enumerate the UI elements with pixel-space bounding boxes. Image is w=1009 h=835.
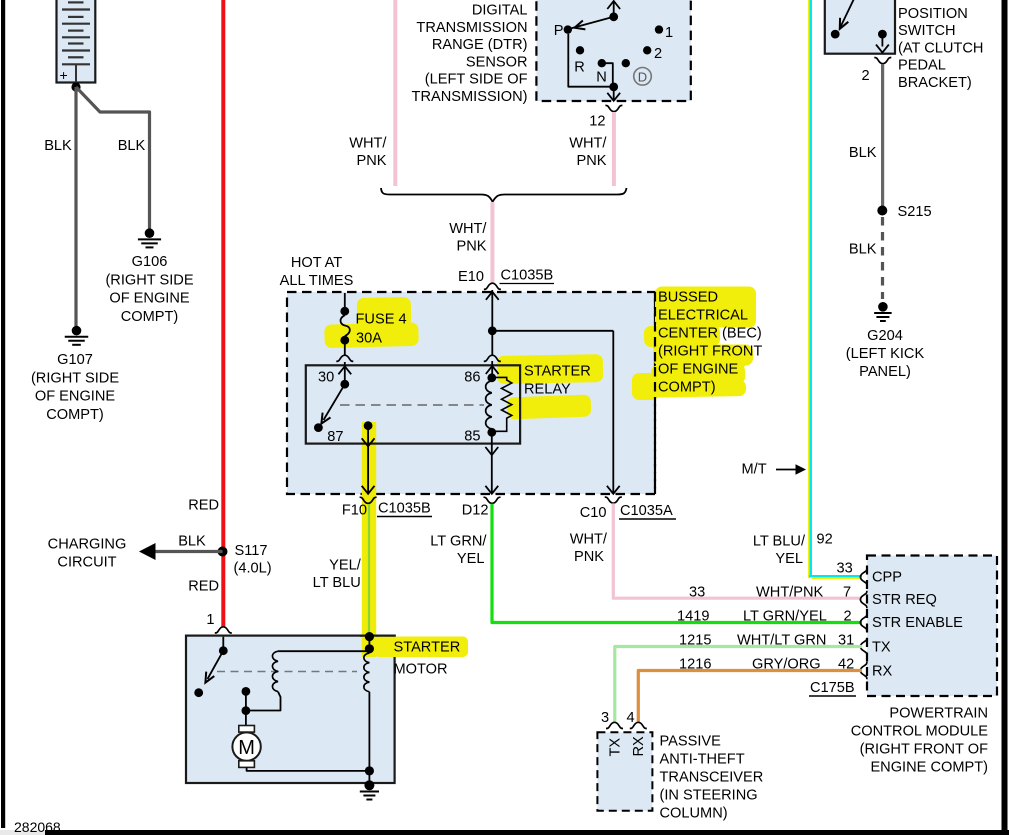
svg-text:ALL TIMES: ALL TIMES <box>280 273 354 289</box>
connector E10 C1035B <box>484 283 501 289</box>
svg-text:RED: RED <box>188 498 219 514</box>
svg-text:ENGINE COMPT): ENGINE COMPT) <box>870 760 988 776</box>
DTR selector node <box>609 12 618 21</box>
svg-text:CPP: CPP <box>872 570 902 586</box>
highlight mark blob left of COMPT) <box>632 373 659 400</box>
svg-text:C10: C10 <box>580 505 607 521</box>
svg-text:TX: TX <box>608 738 624 757</box>
svg-text:N: N <box>596 70 607 86</box>
starter hold-in coil <box>364 653 370 692</box>
svg-text:COLUMN): COLUMN) <box>660 806 728 822</box>
svg-text:TRANSCEIVER: TRANSCEIVER <box>660 770 764 786</box>
svg-text:(RIGHT SIDE: (RIGHT SIDE <box>31 370 119 386</box>
svg-text:DIGITAL: DIGITAL <box>472 3 528 19</box>
DTR contact 2 <box>643 46 651 54</box>
svg-text:HOT AT: HOT AT <box>291 255 342 271</box>
battery output junction node <box>71 82 80 91</box>
starter solenoid top wire <box>278 650 369 652</box>
DTR contact 1 <box>655 25 663 33</box>
svg-text:3: 3 <box>601 710 609 726</box>
svg-text:SWITCH: SWITCH <box>898 23 956 39</box>
svg-text:TRANSMISSION): TRANSMISSION) <box>412 89 528 105</box>
starter switch node <box>219 646 228 655</box>
svg-text:LT BLU: LT BLU <box>313 575 361 591</box>
clutch position switch arm with arrow <box>840 0 857 29</box>
wire BLK clutch switch to S215 <box>881 64 884 211</box>
svg-text:1: 1 <box>665 25 673 41</box>
svg-text:C1035A: C1035A <box>620 503 673 519</box>
relay switch arm <box>324 384 345 420</box>
highlight mark over COMPT) <box>635 380 746 398</box>
PCM pin CPP <box>860 568 867 585</box>
svg-text:YEL: YEL <box>457 551 485 567</box>
svg-text:COMPT): COMPT) <box>658 380 716 396</box>
wire YEL/LT BLU F10 to starter motor <box>368 504 370 636</box>
wire WHT/PNK left vertical <box>393 0 397 186</box>
relay pin 85 exit wire with arrows <box>491 434 493 493</box>
svg-text:COMPT): COMPT) <box>46 407 104 423</box>
svg-text:S117: S117 <box>235 543 268 559</box>
svg-text:BRACKET): BRACKET) <box>898 75 972 91</box>
svg-text:COMPT): COMPT) <box>121 309 179 325</box>
relay coil node 85 <box>487 428 496 437</box>
starter box top edge over highlight <box>360 634 396 636</box>
wire WHT/PNK C10 to PCM STR REQ <box>613 503 862 598</box>
svg-text:TRANSMISSION: TRANSMISSION <box>416 20 527 36</box>
starter relay box <box>306 365 520 443</box>
svg-text:STARTER: STARTER <box>394 640 461 656</box>
svg-text:86: 86 <box>464 370 480 386</box>
starter motor M <box>232 732 260 760</box>
svg-text:WHT/: WHT/ <box>570 532 608 548</box>
svg-text:MOTOR: MOTOR <box>394 662 448 678</box>
highlight mark over STARTER label of starter motor <box>374 637 468 658</box>
relay coil parallel resistor <box>492 377 512 431</box>
PCM pin TX <box>860 638 867 655</box>
svg-text:ELECTRICAL: ELECTRICAL <box>658 308 748 324</box>
highlight mark under RELAY label <box>507 395 592 420</box>
wire BLK dashed S215 to G204 <box>881 217 884 299</box>
wire LT BLU/YEL vertical to PCM CPP <box>809 0 862 578</box>
wire junction to relay pin 86 <box>491 331 493 355</box>
relay pin 30 entry arrow <box>344 362 346 384</box>
starter feed node at box edge <box>365 632 374 641</box>
svg-text:OF ENGINE: OF ENGINE <box>658 362 739 378</box>
starter motor brush upper <box>245 711 247 726</box>
wire LT GRN/YEL D12 to PCM STR ENABLE <box>492 504 862 623</box>
svg-text:(4.0L): (4.0L) <box>234 561 272 577</box>
svg-text:R: R <box>574 60 585 76</box>
connector starter pin 1 bump <box>215 627 232 633</box>
relay coil node 86 <box>487 373 496 382</box>
svg-text:(LEFT KICK: (LEFT KICK <box>846 346 925 362</box>
wire RED battery feed vertical <box>221 0 225 627</box>
wire GRY/ORG PCM RX to PATS pin 4 <box>638 671 862 722</box>
highlight mark over OF ENGINE <box>651 364 745 386</box>
page frame right border line <box>1002 0 1008 835</box>
svg-text:85: 85 <box>464 429 480 445</box>
DTR sensor box <box>536 0 690 101</box>
ground G107 <box>65 326 89 345</box>
battery B+ <box>57 0 96 87</box>
fuse F4 feed wire <box>344 293 346 308</box>
connector C10 C1035A <box>605 497 622 503</box>
highlight mark over (RIGHT FRONT <box>653 345 753 366</box>
svg-text:C1035B: C1035B <box>378 501 431 517</box>
svg-text:G107: G107 <box>57 352 93 368</box>
svg-text:RANGE (DTR): RANGE (DTR) <box>432 37 528 53</box>
svg-text:(RIGHT FRONT OF: (RIGHT FRONT OF <box>860 742 988 758</box>
svg-text:PNK: PNK <box>456 239 486 255</box>
highlight mark over STARTER RELAY label <box>497 354 603 384</box>
BEC wire down to C10 with arrow <box>612 331 614 493</box>
svg-text:YEL/: YEL/ <box>329 558 362 574</box>
bussed electrical center (BEC) box <box>287 292 655 494</box>
svg-text:LT GRN/: LT GRN/ <box>430 534 487 550</box>
svg-text:LT BLU/: LT BLU/ <box>753 534 806 550</box>
svg-text:P: P <box>554 23 564 39</box>
svg-text:STR REQ: STR REQ <box>872 592 937 608</box>
starter ground <box>360 780 379 799</box>
svg-text:TX: TX <box>872 640 891 656</box>
svg-text:(IN STEERING: (IN STEERING <box>660 788 758 804</box>
wire BLK battery to G106 <box>76 87 150 229</box>
highlight mark over CENTER <box>644 325 720 347</box>
DTR contact R <box>576 46 584 54</box>
svg-text:WHT/PNK: WHT/PNK <box>756 585 824 601</box>
svg-text:ANTI-THEFT: ANTI-THEFT <box>660 752 745 768</box>
svg-text:CONTROL MODULE: CONTROL MODULE <box>851 724 989 740</box>
svg-text:M: M <box>238 737 255 759</box>
starter switch contact <box>194 688 203 697</box>
svg-text:30: 30 <box>318 370 334 386</box>
starter feed inner node <box>365 644 374 653</box>
highlight mark connector right <box>704 355 747 368</box>
relay actuation dashed link <box>340 404 484 406</box>
clutch switch output with down arrow <box>881 34 883 46</box>
svg-text:RX: RX <box>872 664 893 680</box>
connector PATS pin 3 <box>606 722 623 728</box>
svg-text:LT GRN/YEL: LT GRN/YEL <box>743 609 827 625</box>
PCM pin STR REQ <box>860 591 867 608</box>
relay pin 87 node <box>364 421 373 430</box>
svg-text:RELAY: RELAY <box>524 382 571 398</box>
starter pin 1 entry wire <box>222 637 224 651</box>
wire WHT/LT GRN PCM TX to PATS pin 3 <box>615 647 862 722</box>
svg-text:(RIGHT SIDE: (RIGHT SIDE <box>105 272 193 288</box>
svg-text:CIRCUIT: CIRCUIT <box>57 555 116 571</box>
svg-text:(RIGHT FRONT: (RIGHT FRONT <box>658 344 762 360</box>
PCM pin STR ENABLE <box>860 614 867 631</box>
splice S117 <box>218 547 228 557</box>
svg-text:CHARGING: CHARGING <box>48 537 127 553</box>
wire fuse to relay pin 30 <box>344 344 346 355</box>
connector F10 C1035B <box>360 497 377 503</box>
relay pin 86 entry arrow <box>491 361 493 378</box>
relay switch contact <box>314 423 323 432</box>
relay common node 30 <box>340 380 349 389</box>
connector C175B label <box>809 680 856 696</box>
svg-text:30A: 30A <box>356 331 382 347</box>
svg-text:BUSSED: BUSSED <box>658 290 718 306</box>
relay pin 87 exit wire with arrows <box>367 426 369 494</box>
powertrain control module box <box>867 556 997 697</box>
svg-text:WHT/: WHT/ <box>349 136 387 152</box>
starter motor return wire <box>247 767 370 771</box>
svg-text:CENTER (BEC): CENTER (BEC) <box>658 326 762 342</box>
svg-text:92: 92 <box>817 532 833 548</box>
svg-text:(LEFT SIDE OF: (LEFT SIDE OF <box>425 72 528 88</box>
PCM pin RX <box>860 662 867 679</box>
svg-text:G106: G106 <box>132 254 168 270</box>
svg-text:2: 2 <box>861 68 869 84</box>
connector PATS pin 4 <box>630 722 647 728</box>
connector pin 12 bump <box>605 105 622 111</box>
svg-text:87: 87 <box>327 429 343 445</box>
svg-text:2: 2 <box>654 46 662 62</box>
BEC right edge dashes over highlight <box>654 292 656 494</box>
highlight mark over 30A and fuse symbol <box>324 322 419 348</box>
svg-text:E10: E10 <box>458 269 484 285</box>
svg-text:STR ENABLE: STR ENABLE <box>872 615 963 631</box>
svg-text:POWERTRAIN: POWERTRAIN <box>889 706 988 722</box>
ground G106 <box>138 228 161 247</box>
starter actuation dashed link <box>217 671 357 673</box>
DTR output wire pin 12 with down arrow <box>613 87 615 100</box>
starter coil to contact wire <box>246 692 281 711</box>
svg-text:282068: 282068 <box>14 819 61 835</box>
svg-text:BLK: BLK <box>118 138 146 154</box>
clutch pedal position switch box <box>825 0 895 54</box>
starter pull-in coil <box>272 651 278 691</box>
svg-text:SENSOR: SENSOR <box>466 54 528 70</box>
DTR contact P <box>564 25 572 33</box>
bus merge brace <box>381 188 627 202</box>
svg-text:BLK: BLK <box>44 138 72 154</box>
DTR output node <box>609 83 618 92</box>
svg-text:WHT/: WHT/ <box>449 221 487 237</box>
DTR wire P to output node <box>568 34 613 87</box>
svg-text:BLK: BLK <box>849 241 877 257</box>
wire BLK to charging circuit with arrow <box>154 550 223 553</box>
svg-text:PNK: PNK <box>576 153 606 169</box>
splice S215 <box>877 206 887 216</box>
svg-text:RED: RED <box>188 579 219 595</box>
DTR selector arm arrow to P <box>570 17 614 29</box>
DTR contact N and stub <box>598 59 606 67</box>
connector pin 2 bump <box>874 58 891 64</box>
svg-text:PNK: PNK <box>574 549 604 565</box>
svg-text:YEL: YEL <box>775 551 803 567</box>
svg-text:C175B: C175B <box>810 680 855 696</box>
svg-text:PEDAL: PEDAL <box>898 58 946 74</box>
svg-text:33: 33 <box>689 585 705 601</box>
svg-text:BLK: BLK <box>178 534 206 550</box>
clutch switch contact left <box>831 30 840 39</box>
svg-text:WHT/: WHT/ <box>569 136 607 152</box>
svg-text:F10: F10 <box>342 503 367 519</box>
starter return node <box>365 766 374 775</box>
starter switch arm with arrow <box>208 651 224 679</box>
svg-text:C1035B: C1035B <box>501 268 554 284</box>
svg-text:FUSE 4: FUSE 4 <box>356 312 407 328</box>
svg-text:2: 2 <box>844 609 852 625</box>
starter right wire down <box>368 692 370 783</box>
svg-text:D12: D12 <box>462 503 489 519</box>
DTR contact D circled <box>622 59 630 67</box>
BEC internal junction to C10 <box>488 326 497 335</box>
starter contact stub dots <box>242 687 251 696</box>
relay coil winding <box>486 381 492 429</box>
highlight mark over BUSSED ELECTRICAL <box>655 287 756 328</box>
page frame left border line <box>1 0 5 828</box>
svg-text:(AT CLUTCH: (AT CLUTCH <box>898 40 983 56</box>
relay pin 86 connector bump <box>484 355 501 361</box>
svg-text:1: 1 <box>206 612 214 628</box>
page frame bottom border bar <box>45 830 1009 835</box>
fuse 4 30A symbol <box>340 307 349 345</box>
wire BLK battery to G107 <box>74 87 77 326</box>
ground G204 <box>874 302 892 321</box>
connector D12 <box>484 497 501 503</box>
svg-text:+: + <box>60 67 68 83</box>
svg-text:POSITION: POSITION <box>898 6 968 22</box>
wire WHT/PNK merged to E10 <box>490 202 494 283</box>
svg-text:PNK: PNK <box>356 153 386 169</box>
highlight mark along starter wire 87 to F10 to starter motor <box>362 422 376 657</box>
relay pin 30 connector bump <box>336 355 353 361</box>
svg-text:12: 12 <box>589 114 605 130</box>
clutch switch contact right <box>878 30 887 39</box>
svg-text:OF ENGINE: OF ENGINE <box>35 389 116 405</box>
svg-text:D: D <box>638 69 647 84</box>
svg-text:STARTER: STARTER <box>524 364 591 380</box>
svg-text:33: 33 <box>837 561 853 577</box>
wire WHT/PNK from DTR pin 12 <box>612 112 616 186</box>
svg-text:OF ENGINE: OF ENGINE <box>109 291 190 307</box>
svg-text:1419: 1419 <box>677 609 709 625</box>
svg-text:S215: S215 <box>898 204 932 220</box>
svg-text:G204: G204 <box>867 328 903 344</box>
DTR selector common line with up arrow <box>613 1 615 17</box>
svg-text:PASSIVE: PASSIVE <box>660 734 722 750</box>
highlight mark over FUSE 4 label <box>357 297 411 327</box>
starter motor brush lower <box>239 761 255 768</box>
passive anti-theft transceiver box <box>597 732 652 810</box>
svg-text:PANEL): PANEL) <box>859 364 911 380</box>
wire E10 into BEC with up arrow <box>491 290 493 331</box>
svg-text:RX: RX <box>631 736 647 757</box>
svg-text:4: 4 <box>626 710 634 726</box>
svg-text:M/T: M/T <box>742 462 767 478</box>
svg-text:7: 7 <box>843 585 851 601</box>
svg-text:BLK: BLK <box>849 145 877 161</box>
starter motor box <box>186 636 395 783</box>
